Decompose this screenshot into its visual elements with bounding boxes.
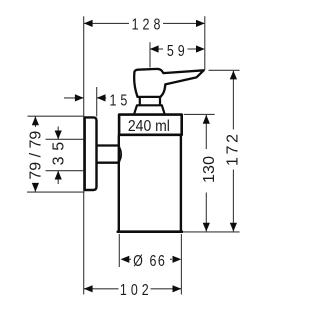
svg-text:130: 130 [201, 156, 218, 183]
svg-text:172: 172 [224, 134, 241, 166]
svg-text:240 ml: 240 ml [128, 118, 170, 135]
svg-text:128: 128 [132, 16, 165, 34]
svg-text:Ø 66: Ø 66 [133, 252, 166, 270]
svg-text:79 / 79: 79 / 79 [27, 131, 44, 180]
svg-text:15: 15 [109, 92, 131, 110]
svg-text:102: 102 [120, 282, 153, 300]
svg-text:59: 59 [167, 43, 189, 61]
